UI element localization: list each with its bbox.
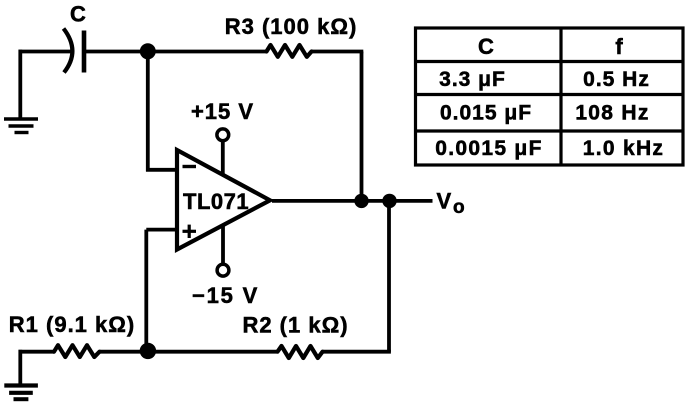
resistor R1 zigzag — [54, 345, 100, 357]
svg-text:V: V — [437, 188, 452, 213]
svg-text:R2 (1 kΩ): R2 (1 kΩ) — [242, 313, 348, 338]
wire: non-inverting input horizontal — [146, 228, 177, 232]
wire: V+ circle to triangle top edge — [221, 140, 225, 175]
op-amp U1 TL071 triangle — [177, 150, 270, 250]
svg-text:C: C — [70, 2, 86, 27]
wire: right vertical from R3 corner down to output node — [360, 52, 364, 202]
wire: bottom-left riser to R1 — [19, 350, 55, 354]
wire: node A down to inverting input — [146, 52, 150, 172]
node A: junction dot (cap / R3 / inverting input) — [140, 43, 156, 59]
U1 inverting pin - sign — [183, 165, 197, 168]
node: bottom junction dot (R1/R2/non-inverting) — [140, 343, 156, 359]
svg-text:R3 (100 kΩ): R3 (100 kΩ) — [225, 14, 358, 39]
resistor R3 zigzag — [267, 45, 312, 57]
svg-text:f: f — [615, 34, 623, 59]
wire: triangle bottom edge to V- circle — [221, 226, 225, 265]
wire: top-left vertical down to ground — [18, 50, 22, 118]
wire: horizontal into inverting input — [146, 168, 177, 172]
svg-text:0.5 Hz: 0.5 Hz — [583, 68, 650, 91]
svg-text:3.3 μF: 3.3 μF — [439, 68, 506, 91]
svg-text:108 Hz: 108 Hz — [575, 102, 649, 125]
ground symbol (bottom left) — [4, 386, 38, 400]
wire: R3 to top-right corner — [312, 50, 364, 54]
svg-text:R1 (9.1 kΩ): R1 (9.1 kΩ) — [9, 312, 135, 337]
V- supply terminal circle — [217, 264, 229, 276]
svg-text:o: o — [453, 197, 465, 218]
svg-text:TL071: TL071 — [183, 189, 249, 214]
wire: vertical from non-inverting input down to bottom node — [144, 230, 148, 352]
wire: vertical from output node down to R2 — [387, 201, 391, 352]
wire: capacitor to node A — [86, 50, 150, 54]
node: output junction dot (to R2) — [382, 194, 396, 208]
svg-text:0.0015 μF: 0.0015 μF — [435, 137, 542, 160]
wire: R1 to bottom node — [100, 350, 151, 354]
wire: bottom-left vertical down to ground — [18, 350, 22, 384]
svg-text:1.0 kHz: 1.0 kHz — [583, 137, 664, 160]
svg-text:−15 V: −15 V — [192, 283, 259, 308]
node: output junction dot (from R3) — [354, 194, 368, 208]
capacitor C (curved plate + straight plate) — [64, 29, 85, 73]
svg-text:+15 V: +15 V — [191, 99, 254, 124]
table: C vs f value table — [416, 28, 684, 165]
wire: op-amp output to Vo — [272, 199, 433, 203]
V+ supply terminal circle — [217, 129, 229, 141]
wire: bottom node to R2 — [148, 350, 277, 354]
ground symbol (top left) — [4, 119, 38, 133]
U1 non-inverting pin + sign — [183, 225, 197, 238]
resistor R2 zigzag — [278, 346, 323, 358]
wire: top-left horizontal from ground riser to capacitor — [19, 50, 73, 54]
svg-text:C: C — [478, 34, 494, 59]
wire: R2 to bottom-right corner — [323, 350, 391, 354]
wire: node A to R3 — [148, 50, 267, 54]
svg-text:0.015 μF: 0.015 μF — [440, 102, 532, 125]
